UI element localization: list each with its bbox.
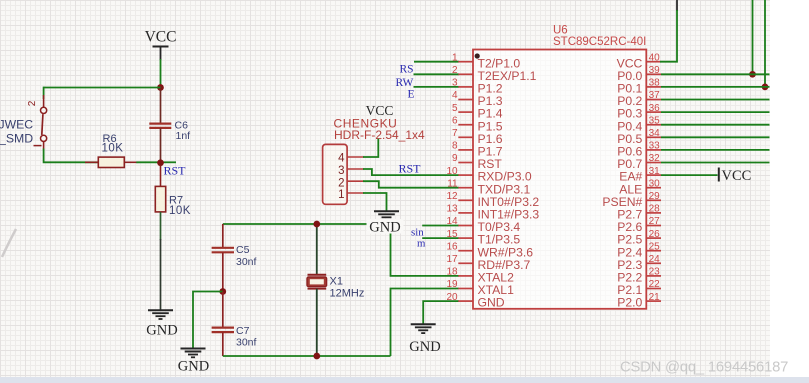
svg-text:10: 10: [446, 166, 458, 177]
pin stubs U6 right: [646, 62, 661, 301]
svg-text:X1: X1: [330, 276, 343, 288]
net label sin: [411, 226, 424, 238]
node junction P0.1: [762, 84, 769, 91]
pin stubs U6 left: [458, 62, 473, 301]
label JWEC: [0, 118, 33, 132]
svg-text:40: 40: [649, 52, 661, 63]
wire R7 to ground: [160, 212, 162, 310]
wire J1-3 to RXD/P3.0: [363, 169, 459, 175]
label GND3: [367, 219, 404, 235]
pin numbers 40-21: [649, 52, 661, 302]
svg-text:RST: RST: [399, 162, 422, 176]
svg-text:15: 15: [446, 229, 458, 240]
pin number 2 (J1): [338, 178, 344, 190]
capacitor C5: [212, 224, 234, 292]
svg-text:16: 16: [446, 241, 458, 252]
svg-text:5: 5: [452, 103, 458, 114]
wire net E to pin 3: [414, 86, 459, 88]
pin number 4 (J1): [338, 152, 345, 164]
svg-text:35: 35: [649, 115, 661, 126]
wire net RS to pin 1: [414, 61, 459, 63]
power port VCC (header): [366, 103, 394, 118]
svg-text:3: 3: [452, 78, 458, 89]
wire node A to switch top: [44, 87, 161, 89]
pin 1 marker dot: [475, 53, 480, 58]
wire crystal top rail: [223, 223, 391, 225]
pin stub J1-3: [347, 168, 364, 170]
svg-text:24: 24: [649, 254, 661, 265]
wire J1-1 to GND3: [363, 193, 387, 211]
svg-text:29: 29: [649, 191, 661, 202]
power port VCC (top left): [145, 29, 177, 61]
crystal X1: [307, 224, 327, 356]
svg-text:34: 34: [649, 128, 661, 139]
label C6: [175, 119, 189, 131]
pin names U6 left: [478, 56, 540, 309]
label CHENGKU: [334, 116, 398, 130]
connector J1 (HDR-F-2.54_1x4): [323, 144, 348, 204]
resistor R7: [155, 166, 165, 212]
wire RST net stub: [161, 161, 177, 163]
svg-text:27: 27: [649, 216, 661, 227]
svg-text:2: 2: [338, 178, 344, 190]
svg-text:1nf: 1nf: [176, 130, 191, 142]
pin stub J1-4: [347, 156, 364, 158]
wire down to switch: [43, 87, 45, 99]
net label RS: [400, 64, 414, 76]
svg-text:JWEC: JWEC: [0, 118, 33, 132]
node X1 bottom junction: [313, 353, 320, 360]
wires P0.0-P0.7 bus: [661, 74, 770, 162]
svg-text:18: 18: [446, 267, 458, 278]
wire EA# to VCC: [661, 174, 718, 176]
pin number 3 (J1): [338, 165, 344, 177]
wire GND pin 20 to GND4: [423, 301, 459, 323]
svg-text:VCC: VCC: [145, 29, 177, 46]
ground GND4: [411, 324, 436, 333]
svg-text:36: 36: [649, 103, 661, 114]
svg-text:7: 7: [452, 128, 458, 139]
svg-text:23: 23: [649, 267, 661, 278]
resistor R6: [85, 157, 137, 167]
wire feed to P0.0: [752, 0, 754, 74]
net label m: [417, 237, 426, 249]
chip designator U6: [553, 25, 568, 37]
value 10K (R7): [169, 205, 191, 217]
svg-text:VCC: VCC: [722, 168, 752, 184]
wire net m to pin 15: [422, 237, 459, 239]
svg-text:2: 2: [27, 100, 38, 106]
svg-text:32: 32: [649, 153, 661, 164]
svg-text:25: 25: [649, 241, 661, 252]
svg-text:9: 9: [452, 153, 458, 164]
svg-text:39: 39: [649, 65, 661, 76]
svg-text:8: 8: [452, 141, 458, 152]
pin names U6 right: [602, 56, 642, 309]
svg-text:30nf: 30nf: [236, 256, 257, 268]
svg-text:14: 14: [446, 216, 458, 227]
label C7: [236, 325, 250, 337]
svg-text:STC89C52RC-40I: STC89C52RC-40I: [553, 36, 646, 48]
ground GND3: [374, 211, 399, 220]
svg-text:10K: 10K: [169, 205, 191, 217]
chip part number STC89C52RC-40I: [553, 36, 646, 48]
wire net RW to pin 2: [414, 73, 459, 75]
label GND1: [146, 323, 177, 339]
svg-text:4: 4: [338, 152, 345, 164]
label C5: [236, 244, 250, 256]
switch S1 (reset button JWEC): [41, 95, 47, 150]
label R6: [103, 133, 117, 145]
wire J1-4 to VCC: [363, 139, 378, 157]
svg-text:26: 26: [649, 229, 661, 240]
label GND4: [409, 339, 440, 355]
svg-text:28: 28: [649, 204, 661, 215]
svg-text:GND: GND: [409, 339, 440, 355]
label R7: [169, 195, 183, 207]
wire crystal bottom rail: [223, 355, 391, 357]
svg-text:2: 2: [452, 65, 458, 76]
svg-text:m: m: [417, 237, 426, 249]
value 1nf: [176, 130, 191, 142]
wire net sin to pin 14: [422, 225, 459, 227]
node junction P0.0: [749, 71, 756, 78]
svg-text:30nf: 30nf: [236, 336, 257, 348]
pin stub J1-1: [347, 192, 364, 194]
capacitor C6: [149, 90, 171, 162]
svg-text:U6: U6: [553, 25, 568, 37]
svg-text:C5: C5: [236, 244, 250, 256]
wire switch to R6: [44, 149, 99, 163]
svg-text:6: 6: [452, 115, 458, 126]
svg-text:12MHz: 12MHz: [330, 287, 365, 299]
wire VCC pin 40 feed: [660, 0, 677, 62]
node X1 top junction: [313, 221, 320, 228]
svg-text:GND: GND: [478, 296, 505, 310]
svg-text:11: 11: [447, 178, 458, 189]
svg-text:RW: RW: [396, 77, 414, 89]
net label RST (left): [164, 164, 187, 178]
svg-text:37: 37: [649, 90, 661, 101]
wire XTAL2 to chip: [391, 224, 459, 276]
svg-text:17: 17: [446, 254, 458, 265]
value 30nf (C7): [236, 336, 257, 348]
wire node B to GND2: [193, 292, 223, 349]
svg-text:1: 1: [338, 189, 344, 201]
wire R6 to node RST: [136, 161, 158, 163]
switch pin number 1 (rotated): [34, 145, 42, 147]
node RST junction: [157, 159, 164, 166]
label X1: [330, 276, 343, 288]
capacitor C7: [212, 292, 234, 357]
node A junction: [157, 84, 164, 91]
ground GND2: [181, 349, 206, 358]
svg-text:4: 4: [452, 90, 458, 101]
pin numbers 1-20: [446, 52, 458, 302]
svg-text:19: 19: [446, 279, 458, 290]
svg-text:31: 31: [649, 166, 661, 177]
ground GND1: [148, 310, 173, 319]
svg-text:20: 20: [446, 292, 458, 303]
label _SMD: [0, 132, 33, 146]
svg-text:12: 12: [446, 191, 458, 202]
svg-text:RS: RS: [400, 64, 414, 76]
svg-text:E: E: [408, 88, 415, 100]
svg-text:RST: RST: [164, 164, 187, 178]
wire XTAL1 to chip: [391, 289, 459, 357]
svg-text:_SMD: _SMD: [0, 132, 33, 146]
net label E: [408, 88, 415, 100]
svg-text:38: 38: [649, 78, 661, 89]
watermark text: [620, 360, 788, 376]
svg-text:21: 21: [649, 292, 661, 303]
svg-text:HDR-F-2.54_1x4: HDR-F-2.54_1x4: [334, 128, 425, 142]
svg-text:30: 30: [649, 178, 661, 189]
value 10K (R6): [102, 142, 124, 154]
svg-text:GND: GND: [146, 323, 177, 339]
net label RST (header): [399, 162, 422, 176]
value 12MHz: [330, 287, 365, 299]
label HDR-F-2.54_1x4: [334, 128, 425, 142]
node B junction (C5/C7): [219, 288, 226, 295]
svg-text:13: 13: [446, 204, 458, 215]
label GND2: [178, 359, 209, 375]
watermark swoosh: [2, 229, 16, 257]
svg-text:CSDN @qq_ 1694456187: CSDN @qq_ 1694456187: [620, 360, 788, 376]
svg-text:GND: GND: [178, 359, 209, 375]
wire feed to P0.1: [764, 0, 766, 87]
pin stub J1-2: [347, 180, 364, 182]
svg-text:3: 3: [338, 165, 344, 177]
chip U6 body: [473, 50, 646, 309]
pin number 1 (J1): [338, 189, 344, 201]
svg-text:22: 22: [649, 279, 661, 290]
svg-text:C7: C7: [236, 325, 250, 337]
wire VCC stem to node A: [160, 59, 162, 88]
net label RW: [396, 77, 414, 89]
svg-text:10K: 10K: [102, 142, 124, 154]
wire J1-2 to TXD/P3.1: [363, 181, 459, 188]
svg-text:GND: GND: [369, 219, 400, 235]
svg-text:1: 1: [452, 52, 458, 63]
power port VCC (EA#): [719, 168, 752, 184]
switch pin number 2 (rotated): [27, 100, 38, 106]
svg-text:33: 33: [649, 141, 661, 152]
svg-text:P2.0: P2.0: [617, 296, 642, 310]
value 30nf (C5): [236, 256, 257, 268]
